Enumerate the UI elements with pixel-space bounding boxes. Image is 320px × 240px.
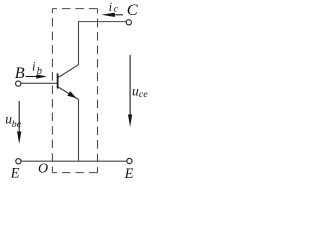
svg-text:O: O xyxy=(38,162,48,177)
transistor Q1 collector diagonal xyxy=(58,65,78,78)
svg-text:E: E xyxy=(10,166,20,181)
svg-text:C: C xyxy=(127,0,139,19)
voltage arrow u_ce xyxy=(129,55,131,115)
transistor Q1 emitter arrowhead xyxy=(67,91,76,98)
voltage arrow u_be xyxy=(18,101,20,132)
terminal C xyxy=(126,20,131,25)
terminal E right xyxy=(127,158,132,163)
current arrow i_c xyxy=(114,14,123,16)
transistor Q1 emitter diagonal xyxy=(58,87,78,100)
svg-text:E: E xyxy=(124,166,134,180)
svg-text:b: b xyxy=(37,66,42,77)
dashed two-port box xyxy=(52,9,97,173)
wire: bottom emitter wire E to E xyxy=(21,160,127,162)
svg-text:ce: ce xyxy=(139,89,148,100)
transistor Q1 base bar xyxy=(57,73,59,88)
wire: emitter riser xyxy=(78,100,80,162)
current arrow i_b xyxy=(26,76,39,78)
svg-text:i: i xyxy=(32,60,36,74)
svg-text:B: B xyxy=(15,63,25,82)
terminal B xyxy=(16,81,21,86)
svg-text:c: c xyxy=(114,4,119,15)
wire: base wire from B to transistor xyxy=(21,82,57,84)
svg-text:i: i xyxy=(109,0,113,14)
svg-text:be: be xyxy=(12,119,22,130)
wire: top collector wire to C xyxy=(79,21,127,23)
terminal E left xyxy=(16,159,21,164)
wire: collector riser xyxy=(78,21,80,65)
